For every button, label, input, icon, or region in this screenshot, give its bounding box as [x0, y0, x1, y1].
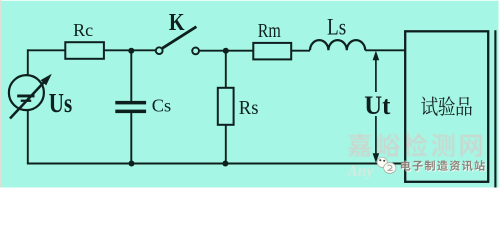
- svg-text:Rc: Rc: [73, 20, 93, 40]
- svg-text:K: K: [169, 8, 185, 35]
- svg-text:Any: Any: [347, 163, 374, 180]
- svg-text:Us: Us: [49, 89, 72, 119]
- svg-text:Ls: Ls: [327, 14, 346, 40]
- svg-text:Rs: Rs: [239, 97, 259, 119]
- svg-text:Rm: Rm: [258, 20, 281, 42]
- svg-text:Ut: Ut: [364, 91, 391, 120]
- svg-text:Cs: Cs: [152, 96, 171, 116]
